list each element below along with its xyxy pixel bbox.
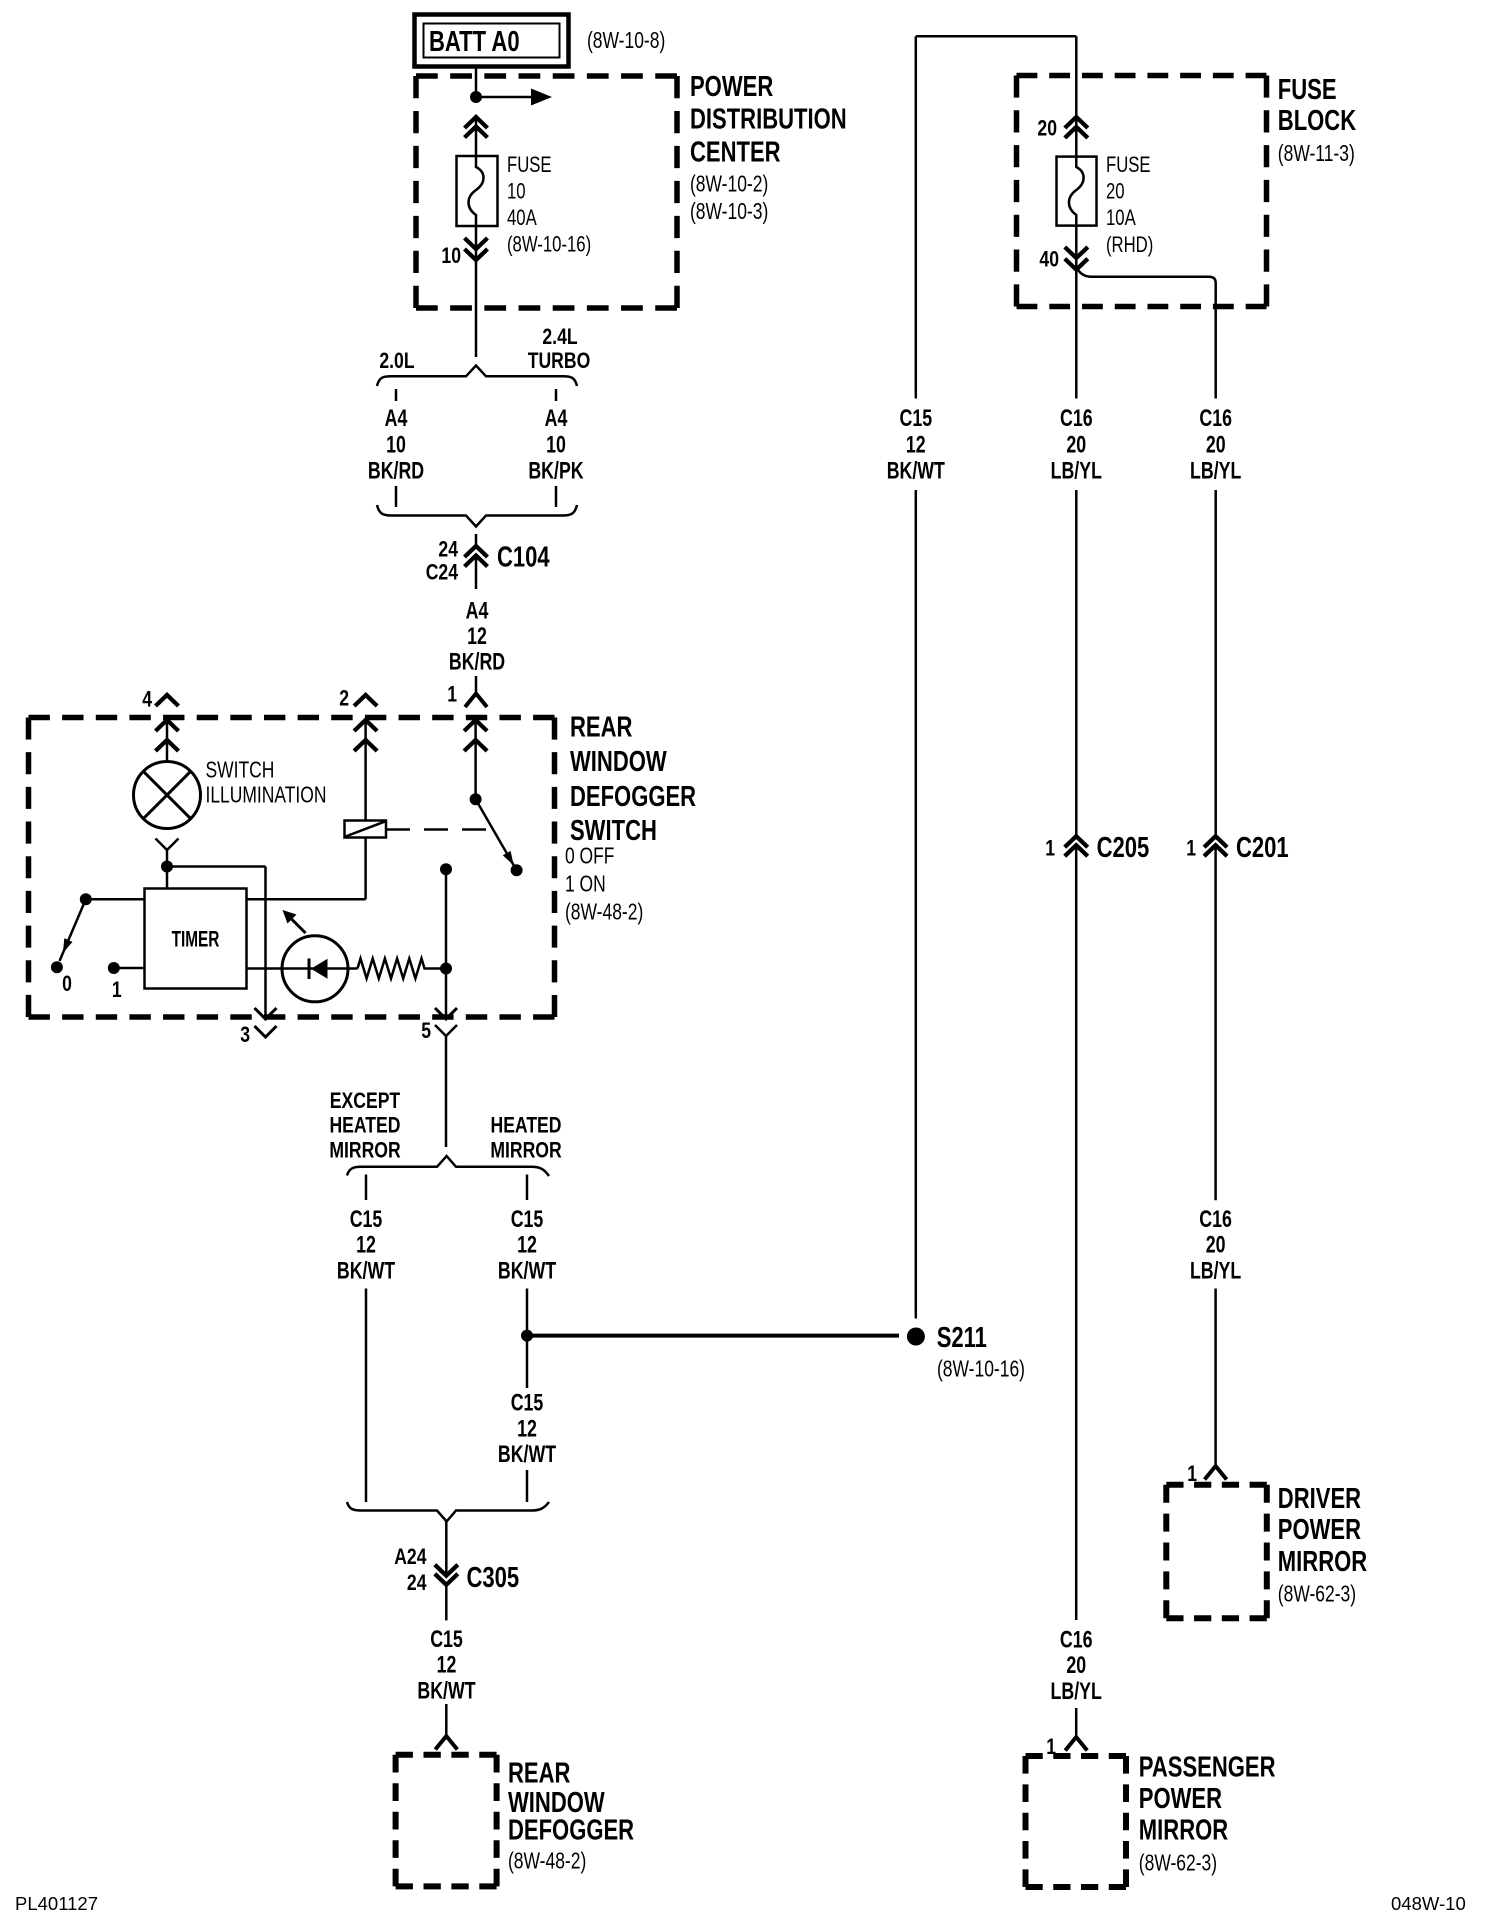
resistor [358,959,447,979]
splice S211 label [937,1322,1025,1382]
label 2.4L TURBO [528,325,591,373]
footer sheet code 048W-10 [1391,1893,1466,1914]
svg-text:(RHD): (RHD) [1106,233,1153,258]
wire C15 12 BK/WT to defogger [417,1627,475,1736]
label 3 [240,1023,250,1047]
svg-text:A4: A4 [385,405,408,431]
svg-text:(8W-10-8): (8W-10-8) [587,29,665,54]
svg-text:BK/WT: BK/WT [887,458,945,484]
svg-text:5: 5 [421,1019,431,1043]
Y connector into driver mirror [1205,1466,1227,1480]
svg-text:10: 10 [546,432,566,458]
switch arm 0 with arrowhead [60,899,86,961]
svg-text:BLOCK: BLOCK [1278,105,1357,137]
svg-text:C15: C15 [430,1627,463,1653]
wire C15 12 BK/WT below junction [498,1341,556,1502]
lamp lead Y and junction [156,839,179,863]
power distribution center dashed box [416,76,677,308]
wire A4 10 BK/PK (2.4L turbo branch) [528,389,584,507]
svg-text:40: 40 [1039,248,1059,272]
svg-text:10: 10 [441,244,461,268]
svg-text:FUSE: FUSE [1106,153,1151,178]
label 5 [421,1019,431,1043]
pin 2 label [339,687,349,711]
wire C16 20 LB/YL (C205 to passenger mirror) [1051,845,1102,1737]
wire C16 20 LB/YL (fuse block to C205) [1051,405,1102,835]
fuse 20 (10A) [1057,157,1097,226]
svg-text:LB/YL: LB/YL [1051,458,1102,484]
svg-text:C104: C104 [497,542,550,574]
svg-text:1 ON: 1 ON [565,872,606,897]
junction dot to S211 [521,1330,533,1342]
rear window defogger dashed box [396,1755,497,1887]
svg-text:(8W-62-3): (8W-62-3) [1278,1582,1356,1607]
splice S211 dot [907,1328,925,1346]
timer [145,889,247,989]
svg-text:PL401127: PL401127 [15,1893,98,1914]
svg-text:FUSE: FUSE [1278,74,1337,106]
pin 5 connector below box [435,1025,457,1147]
pin 40 connector chevrons [1065,226,1088,399]
svg-text:BK/RD: BK/RD [449,649,505,675]
svg-text:BK/RD: BK/RD [368,458,424,484]
svg-text:24: 24 [438,538,458,562]
wire pin 3 vertical [264,867,267,1016]
label 2.0L [379,349,414,373]
svg-text:FUSE: FUSE [507,153,552,178]
svg-text:12: 12 [517,1232,537,1258]
svg-text:C205: C205 [1097,832,1150,864]
wire pin 5 vertical [445,869,448,1015]
svg-text:20: 20 [1066,1653,1086,1679]
driver power mirror dashed box [1166,1485,1267,1618]
svg-text:MIRROR: MIRROR [1139,1815,1229,1847]
svg-text:DEFOGGER: DEFOGGER [570,781,696,813]
junction dot [470,91,482,103]
Y connector into rear window defogger [435,1736,457,1750]
svg-text:24: 24 [407,1571,427,1595]
svg-text:1: 1 [1186,837,1196,861]
label 0 [62,972,72,996]
svg-text:HEATED: HEATED [490,1114,561,1138]
svg-text:20: 20 [1037,117,1057,141]
svg-text:0 OFF: 0 OFF [565,844,614,869]
rear window defogger switch dashed box [29,718,555,1018]
fuse block dashed box [1017,76,1267,307]
svg-text:MIRROR: MIRROR [1278,1546,1368,1578]
lamp junction dot [161,861,173,873]
svg-text:C15: C15 [511,1207,544,1233]
svg-text:20: 20 [1206,432,1226,458]
wire C16 20 LB/YL (C201 to driver mirror) [1190,845,1241,1466]
svg-text:10A: 10A [1106,206,1136,231]
relay coil [345,821,387,838]
svg-text:A4: A4 [466,598,489,624]
svg-text:BK/WT: BK/WT [337,1258,395,1284]
svg-text:C16: C16 [1199,405,1232,431]
split brace (mirror variants) [347,1156,549,1176]
pin 5 top contact dot [440,863,452,875]
svg-text:20: 20 [1106,180,1125,205]
svg-text:S211: S211 [937,1322,987,1354]
footer sheet code PL401127 [15,1893,98,1914]
pin 1 Y connector into switch [465,694,487,708]
svg-text:C16: C16 [1199,1207,1232,1233]
svg-text:POWER: POWER [1139,1783,1223,1815]
relay switch fixed contact dot [470,793,482,805]
svg-text:DRIVER: DRIVER [1278,1483,1362,1515]
svg-text:POWER: POWER [690,71,774,103]
svg-text:(8W-10-2): (8W-10-2) [690,172,768,197]
pin 20 connector chevrons [1065,36,1088,156]
svg-text:POWER: POWER [1278,1514,1362,1546]
svg-text:048W-10: 048W-10 [1391,1893,1466,1914]
svg-text:TIMER: TIMER [172,928,220,952]
pin 1 label (passenger mirror) [1046,1735,1056,1759]
split brace (engine variants) [377,366,577,387]
pin 3 exit chevron at box edge [255,1008,277,1037]
svg-text:SWITCH: SWITCH [205,758,274,783]
fuse block label [1278,74,1357,166]
svg-text:C15: C15 [511,1390,544,1416]
svg-text:DEFOGGER: DEFOGGER [508,1815,634,1847]
node BATT A0 (battery feed box) [415,15,569,67]
pin 20 label [1037,117,1057,141]
rear window defogger label [508,1758,634,1874]
svg-text:LB/YL: LB/YL [1190,1258,1241,1284]
svg-text:1: 1 [447,683,457,707]
svg-text:HEATED: HEATED [329,1114,400,1138]
wire lamp junction to pin 3 branch [167,867,266,889]
svg-text:12: 12 [356,1232,376,1258]
svg-text:(8W-48-2): (8W-48-2) [565,900,643,925]
resistor junction dot [440,963,452,975]
wire battery feed to fuse block (top) [916,35,1077,38]
wire BATT A0 to junction [475,67,478,97]
wire C16 20 LB/YL (fuse block to C201) [1190,405,1241,835]
connector C205 [1045,832,1149,864]
pin 5 exit chevron at box edge [435,1008,457,1019]
svg-text:LB/YL: LB/YL [1051,1678,1102,1704]
svg-text:TURBO: TURBO [528,349,591,373]
svg-text:20: 20 [1206,1232,1226,1258]
svg-text:BK/WT: BK/WT [498,1258,556,1284]
connector C305 [394,1522,519,1621]
label heated mirror [490,1114,561,1163]
svg-text:MIRROR: MIRROR [490,1139,561,1163]
svg-text:BK/WT: BK/WT [417,1678,475,1704]
svg-text:12: 12 [437,1652,457,1678]
wire C15 12 BK/WT (except heated mirror) [337,1175,395,1503]
svg-text:ILLUMINATION: ILLUMINATION [205,783,326,808]
relay mechanical link (dashed) [386,828,489,831]
svg-text:C16: C16 [1060,405,1093,431]
connector C104 [426,534,551,589]
wire C15 12 BK/WT (heated mirror) [498,1175,556,1331]
svg-text:12: 12 [467,624,487,650]
svg-text:2.0L: 2.0L [379,349,414,373]
switch illumination label [205,758,326,808]
svg-text:C201: C201 [1236,832,1289,864]
svg-text:(8W-10-16): (8W-10-16) [507,232,591,257]
svg-text:2.4L: 2.4L [542,325,577,349]
pin 1 feed into relay switch [464,718,487,794]
pin 1 internal dot [108,962,120,974]
fuse 10 value label [507,153,591,257]
passenger power mirror label [1139,1752,1276,1876]
svg-text:C15: C15 [350,1207,383,1233]
svg-text:2: 2 [339,687,349,711]
svg-text:SWITCH: SWITCH [570,815,657,847]
svg-text:BK/PK: BK/PK [528,458,584,484]
Y connector into passenger mirror [1065,1737,1087,1751]
svg-text:4: 4 [142,688,152,712]
svg-text:C305: C305 [467,1562,520,1594]
pin 2 connector [354,695,377,821]
svg-text:C15: C15 [900,405,933,431]
svg-text:WINDOW: WINDOW [570,746,667,778]
label 1 [112,978,122,1002]
svg-text:1: 1 [1045,837,1055,861]
pin 0 contact dot [80,893,92,905]
svg-text:BATT A0: BATT A0 [429,26,520,58]
driver power mirror label [1278,1483,1368,1607]
wire timer to relay coil branch [247,898,366,901]
connector C201 [1186,832,1288,864]
svg-text:EXCEPT: EXCEPT [330,1089,400,1113]
LED arrow [283,910,306,933]
svg-text:C16: C16 [1060,1627,1093,1653]
passenger power mirror dashed box [1026,1756,1127,1887]
merge brace [377,505,577,527]
svg-text:12: 12 [906,432,926,458]
svg-text:3: 3 [240,1023,250,1047]
svg-text:BK/WT: BK/WT [498,1442,556,1468]
arrow feed to other circuits [476,89,552,106]
reference (8W-10-8) [587,29,665,54]
svg-text:40A: 40A [507,206,537,231]
in-line connector chevrons below junction [465,117,488,156]
pin 10 connector chevrons [465,238,488,260]
label except heated mirror [329,1089,400,1163]
svg-text:A4: A4 [545,405,568,431]
svg-text:DISTRIBUTION: DISTRIBUTION [690,104,847,136]
power distribution center label [690,71,847,224]
pin 4 connector [156,695,179,762]
pin 40 label [1039,248,1059,272]
pin 1 label (driver mirror) [1187,1462,1197,1486]
svg-text:PASSENGER: PASSENGER [1139,1752,1276,1784]
rear window defogger switch label [565,712,696,926]
svg-text:LB/YL: LB/YL [1190,458,1241,484]
svg-text:(8W-11-3): (8W-11-3) [1278,142,1355,167]
svg-text:10: 10 [507,180,526,205]
svg-text:REAR: REAR [570,712,633,744]
svg-text:12: 12 [517,1416,537,1442]
pin 1 label (switch) [447,683,457,707]
wire A4 12 BK/RD [449,598,505,694]
svg-text:20: 20 [1066,432,1086,458]
svg-text:A24: A24 [394,1545,426,1569]
merge brace (mirror variants) [347,1502,549,1522]
wire pin 1 internal to timer [114,967,145,970]
wire timer to LED [247,967,358,970]
svg-text:(8W-48-2): (8W-48-2) [508,1849,586,1874]
svg-text:10: 10 [386,432,406,458]
switch illumination lamp [134,762,201,829]
relay switch lower contact dot [511,864,523,876]
svg-text:(8W-62-3): (8W-62-3) [1139,1851,1217,1876]
svg-text:C24: C24 [426,561,458,585]
LED indicator [282,936,348,1002]
svg-text:REAR: REAR [508,1758,571,1790]
pin 10 label [441,244,461,268]
fuse 10 (40A) [457,156,498,226]
wire branch to C201 (curved) [1076,266,1215,399]
fuse 20 value label [1106,153,1153,258]
wire junction to S211 [533,1334,900,1338]
wire pin 0 contact to timer [86,898,145,901]
svg-text:(8W-10-16): (8W-10-16) [937,1357,1025,1382]
wire fuse to engine split [475,226,478,357]
wire A4 10 BK/RD (2.0L branch) [368,389,424,507]
relay switch arm with arrowhead [476,799,514,865]
svg-text:1: 1 [112,978,122,1002]
wire C15 12 BK/WT to S211 (vertical) [887,36,945,1318]
pin 4 label [142,688,152,712]
svg-text:CENTER: CENTER [690,137,781,169]
svg-text:MIRROR: MIRROR [329,1139,400,1163]
svg-text:0: 0 [62,972,72,996]
wire relay coil to timer branch [364,838,367,900]
svg-text:(8W-10-3): (8W-10-3) [690,200,768,225]
pin 0 lower dot [51,961,63,973]
